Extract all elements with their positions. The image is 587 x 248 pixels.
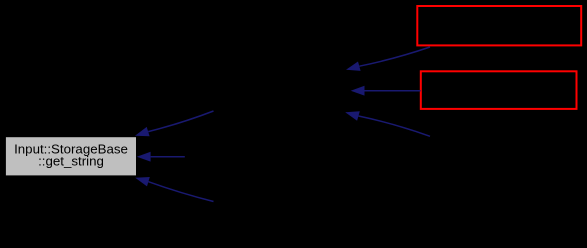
svg-text:::get_string: ::get_string — [38, 153, 104, 168]
edge E1: hidden middle node to gray node (upper) — [135, 111, 214, 136]
node (red, truncated) top right — [417, 6, 581, 45]
edge E6: hidden bottom-right node to hidden middle node — [345, 111, 430, 136]
node Input::StorageBase::get_string (current node, gray) — [6, 137, 136, 175]
edge E5: red middle box to hidden middle node (horizontal) — [351, 86, 421, 96]
node (red, truncated) middle right — [421, 71, 577, 109]
edge E3: hidden middle node to gray node (lower) — [135, 177, 213, 202]
edge E4: red top box to hidden middle node — [346, 47, 430, 71]
edge E2: hidden middle node to gray node (horizontal) — [137, 152, 185, 162]
